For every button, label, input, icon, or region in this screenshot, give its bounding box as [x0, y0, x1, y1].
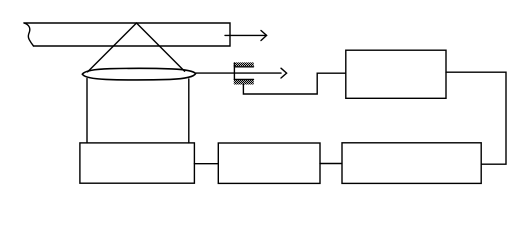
- wire preamp to amplifier: [320, 163, 342, 165]
- sampled beam arrowhead: [281, 68, 287, 78]
- modulator left strap: [233, 63, 235, 80]
- lens (ellipse): [82, 68, 195, 79]
- converging light cone: [88, 23, 185, 72]
- modulator top plate hatch: [234, 62, 254, 66]
- modulator bottom plate edge: [234, 78, 253, 80]
- wire modulator to driver box: [243, 73, 345, 94]
- modulator top plate edge: [234, 66, 253, 68]
- feedback wire driver to amplifier: [446, 72, 506, 164]
- detector box (bottom left): [80, 143, 194, 183]
- sampled beam arrow shaft: [196, 72, 281, 74]
- laser tube body: [24, 23, 230, 46]
- output beam arrowhead: [261, 31, 267, 41]
- lens barrel right wall: [188, 79, 190, 143]
- laser tube break (wavy left edge): [24, 23, 34, 46]
- lens barrel left wall: [86, 79, 88, 143]
- driver box (top right): [346, 50, 446, 98]
- preamp box (bottom middle): [218, 143, 320, 183]
- wire detector to preamp: [194, 163, 218, 165]
- modulator bottom plate hatch: [234, 80, 254, 85]
- amplifier box (bottom right): [342, 143, 481, 184]
- output beam arrow shaft: [225, 34, 266, 36]
